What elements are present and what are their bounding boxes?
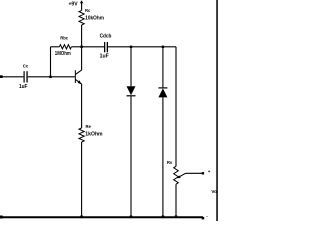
svg-text:Rv: Rv <box>167 160 173 165</box>
svg-text:Cdcb: Cdcb <box>100 34 112 40</box>
svg-text:+: + <box>208 169 211 174</box>
svg-text:1MOhm: 1MOhm <box>55 51 71 57</box>
svg-text:Rbc: Rbc <box>60 36 69 41</box>
svg-text:1kOhm: 1kOhm <box>85 131 103 137</box>
svg-text:10kOhm: 10kOhm <box>85 15 104 21</box>
svg-text:Cc: Cc <box>23 63 29 68</box>
svg-text:Rc: Rc <box>85 8 91 13</box>
svg-text:-: - <box>206 214 208 219</box>
svg-text:Vo: Vo <box>211 189 217 194</box>
svg-text:Re: Re <box>86 124 92 129</box>
svg-text:+9V: +9V <box>69 2 79 8</box>
svg-text:1uF: 1uF <box>100 54 109 60</box>
svg-text:1uF: 1uF <box>19 84 27 90</box>
